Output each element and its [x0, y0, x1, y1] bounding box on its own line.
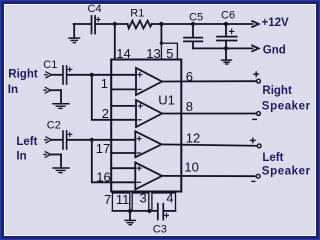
polarity left speaker plus	[251, 138, 255, 142]
terminal left speaker plus	[257, 144, 261, 148]
op-amp amp1 minus	[138, 88, 141, 90]
jack right-in signal	[45, 72, 52, 78]
ground (C6 ground)	[222, 48, 232, 64]
svg-text:C5: C5	[189, 12, 203, 24]
op-amp amp3 triangle	[135, 131, 161, 157]
node input junction left	[90, 138, 94, 142]
svg-text:2: 2	[102, 106, 109, 121]
node junction dots top rail	[113, 22, 228, 51]
op-amp amp3 minus	[137, 152, 140, 154]
wire pin 2 elbow	[92, 75, 136, 120]
op-amp amp2 plus	[138, 104, 142, 108]
terminal right speaker minus	[257, 112, 261, 116]
op-amp amp4 triangle	[135, 163, 162, 190]
capacitor C3	[158, 204, 169, 220]
terminal left speaker minus	[256, 174, 260, 178]
capacitor C1	[63, 66, 72, 84]
svg-text:Gnd: Gnd	[263, 44, 286, 56]
wire bottom bus	[112, 210, 156, 212]
pin box 4	[152, 193, 176, 211]
svg-text:17: 17	[96, 141, 110, 156]
op-amp amp4 plus	[137, 166, 141, 170]
svg-text:+12V: +12V	[262, 17, 290, 29]
wire arrow Gnd head	[252, 46, 259, 52]
op-amp amp1 triangle	[136, 68, 162, 95]
wire amp1 feedback stub	[111, 88, 136, 90]
svg-text:5: 5	[166, 46, 173, 61]
wire amp2 plus stub	[111, 105, 136, 107]
svg-text:16: 16	[96, 169, 110, 184]
svg-text:8: 8	[186, 99, 193, 114]
wire bottom bus right	[164, 210, 175, 212]
wire right-in to C1	[51, 74, 62, 76]
wire rail C4 to R1	[96, 23, 128, 25]
op-amp amp1 plus	[138, 73, 142, 77]
svg-text:Speaker: Speaker	[262, 101, 311, 113]
jack right-in ground	[44, 87, 51, 93]
svg-text:12: 12	[186, 131, 200, 146]
polarity right speaker plus	[254, 72, 258, 76]
wire pin 6 to right speaker plus	[162, 80, 256, 82]
svg-text:U1: U1	[158, 93, 175, 108]
wire pin 12 to left speaker plus	[162, 144, 257, 145]
svg-text:In: In	[16, 151, 26, 163]
pin box 11	[112, 193, 129, 211]
svg-text:3: 3	[140, 190, 147, 205]
svg-text:7: 7	[104, 192, 111, 207]
svg-text:C2: C2	[47, 120, 61, 132]
jack left-in ground	[44, 152, 51, 158]
svg-text:C4: C4	[88, 3, 102, 15]
svg-text:14: 14	[116, 46, 130, 61]
capacitor C6	[217, 24, 237, 48]
jack left-in signal	[45, 137, 52, 143]
pin box 3	[132, 193, 149, 211]
ground (C4 ground)	[69, 24, 80, 43]
wire left-in to C2	[51, 139, 62, 141]
capacitor C5	[184, 24, 202, 48]
svg-text:4: 4	[166, 190, 173, 205]
terminal right speaker plus	[257, 79, 261, 83]
svg-text:13: 13	[146, 46, 160, 61]
wire arrow +12V head	[252, 21, 259, 27]
op-amp U1 package box	[111, 60, 181, 192]
pin box 5	[161, 43, 177, 59]
svg-text:Left: Left	[16, 136, 37, 148]
wire amp4 plus stub	[111, 167, 135, 169]
svg-text:In: In	[8, 84, 18, 96]
polarity right speaker minus	[253, 118, 256, 120]
op-amp amp2 minus	[138, 119, 141, 121]
svg-text:R1: R1	[130, 7, 144, 19]
svg-text:Speaker: Speaker	[262, 166, 311, 178]
op-amp amp3 plus	[137, 137, 141, 141]
ground (right-in jack ground)	[51, 90, 69, 108]
svg-text:Right: Right	[8, 69, 38, 81]
wire rail R1 to +12V arrow	[152, 23, 253, 25]
op-amp amp4 minus	[137, 181, 140, 183]
ground (bottom center ground)	[125, 211, 135, 225]
node bottom bus junctions	[128, 209, 152, 213]
wire pin 8 to right speaker minus	[162, 113, 256, 115]
op-amp amp2 triangle	[136, 100, 162, 127]
wire pin 17	[67, 139, 135, 141]
wire pin 14 drop	[114, 24, 116, 60]
svg-text:Left: Left	[262, 152, 283, 164]
wire Gnd rail	[193, 47, 253, 49]
wire pin 10 to left speaker minus	[162, 175, 256, 177]
svg-text:C6: C6	[221, 10, 235, 22]
svg-text:6: 6	[186, 69, 193, 84]
ground (left-in jack ground)	[51, 155, 69, 173]
svg-text:1: 1	[101, 76, 108, 91]
svg-text:Right: Right	[262, 85, 292, 97]
svg-text:C3: C3	[153, 224, 167, 236]
svg-text:10: 10	[184, 159, 198, 174]
svg-text:C1: C1	[43, 59, 57, 71]
node input junction right	[90, 73, 94, 77]
wire amp3 feedback stub	[111, 152, 135, 154]
wire pin 13 drop	[160, 24, 162, 43]
wire pin 16 elbow	[92, 140, 136, 183]
wire +12V rail left segment	[74, 23, 91, 25]
capacitor C2	[63, 131, 72, 149]
svg-text:11: 11	[116, 192, 129, 207]
wire pin 1	[67, 74, 136, 76]
polarity left speaker minus	[252, 180, 255, 182]
capacitor C4	[92, 16, 101, 34]
resistor R1	[128, 21, 152, 29]
